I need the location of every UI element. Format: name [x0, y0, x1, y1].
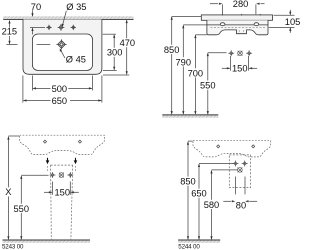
svg-text:Ø 45: Ø 45	[66, 55, 86, 65]
svg-text:Ø 35: Ø 35	[66, 2, 86, 12]
fixing hole right	[254, 23, 259, 26]
svg-text:150: 150	[232, 64, 248, 74]
dim 550 vertical	[208, 53, 227, 114]
tap hole centre line	[30, 26, 45, 28]
dashed basin outline	[193, 141, 271, 157]
svg-text:80: 80	[236, 200, 246, 210]
dim X vertical	[8, 136, 19, 239]
dim 80	[223, 200, 257, 202]
dim 500	[32, 76, 92, 91]
dim 580 vertical	[212, 170, 238, 239]
svg-text:105: 105	[285, 17, 300, 27]
floor hatch strip	[3, 240, 91, 243]
svg-text:700: 700	[188, 68, 204, 78]
fixing arrow left	[46, 158, 50, 164]
fixing hole left (plan)	[44, 140, 47, 143]
connection hole right	[242, 161, 248, 167]
dim 70	[32, 10, 34, 34]
drain crosshair (Ø45)	[56, 39, 66, 49]
fixing hole left (plan)	[217, 145, 220, 148]
apron ledge line	[207, 24, 268, 26]
dim 650 vertical	[199, 163, 234, 239]
connection hole right	[67, 172, 73, 178]
connection hole centre	[59, 173, 64, 178]
dim 790 vertical	[183, 25, 207, 114]
dim 850 vertical	[188, 141, 193, 239]
drain tab dashes	[238, 30, 240, 33]
svg-text:650: 650	[191, 189, 207, 199]
dim 550 vertical	[21, 175, 48, 239]
dim 150	[222, 56, 257, 71]
fixing bolt dashed right	[75, 166, 77, 172]
svg-text:500: 500	[52, 84, 68, 94]
leader Ø45	[60, 49, 65, 58]
connection hole centre	[238, 51, 243, 56]
svg-text:580: 580	[204, 200, 220, 210]
svg-text:790: 790	[176, 57, 192, 67]
svg-text:650: 650	[52, 96, 68, 106]
connection hole left	[50, 172, 56, 178]
connection hole left	[228, 50, 234, 56]
wall hatch strip	[3, 16, 133, 19]
hidden water line (dashed)	[211, 27, 266, 29]
fixing bolt dashed left	[47, 166, 49, 172]
connection hole centre	[238, 168, 243, 173]
tap hole right	[71, 25, 76, 30]
tap hole left	[46, 25, 51, 30]
dim 150	[44, 182, 79, 195]
siphon cover dashed box	[229, 155, 250, 188]
dim 470	[103, 20, 129, 75]
dim 105	[269, 10, 295, 33]
dim 300	[103, 34, 117, 70]
dim 215	[6, 21, 50, 45]
svg-text:550: 550	[14, 204, 30, 214]
tap hole centre (Ø35)	[58, 24, 65, 31]
svg-text:850: 850	[164, 45, 180, 55]
svg-text:150: 150	[55, 187, 71, 197]
dim 650	[23, 76, 102, 103]
svg-text:215: 215	[2, 27, 18, 37]
svg-text:470: 470	[120, 38, 136, 48]
svg-text:300: 300	[107, 48, 123, 58]
svg-text:70: 70	[31, 2, 41, 12]
dim 850 vertical	[172, 16, 202, 114]
svg-text:850: 850	[180, 177, 196, 187]
drain pipe left	[234, 177, 236, 195]
fixing hole right (plan)	[252, 145, 255, 148]
fixing arrow right	[74, 158, 78, 164]
tap deck ticks	[223, 14, 261, 16]
leader Ø35	[62, 11, 66, 26]
basin outer rim	[23, 19, 102, 74]
connection hole right	[246, 50, 252, 56]
connection hole left	[233, 161, 239, 167]
svg-text:5243 00: 5243 00	[2, 243, 24, 250]
fixing hole left	[220, 23, 225, 26]
basin inner bowl	[32, 34, 92, 70]
drain pipe right	[244, 177, 246, 195]
svg-text:280: 280	[233, 0, 249, 9]
pedestal dashed outline	[51, 165, 73, 239]
apron outline	[207, 20, 268, 35]
svg-text:5244 00: 5244 00	[178, 243, 200, 250]
svg-text:X: X	[5, 187, 11, 197]
floor hatch strip	[178, 240, 220, 243]
svg-text:550: 550	[200, 81, 216, 91]
washbasin slab	[201, 15, 272, 20]
floor hatch strip	[162, 115, 218, 118]
fixing hole right (plan)	[78, 140, 81, 143]
dim 280	[210, 4, 265, 15]
dashed basin outline	[20, 135, 105, 154]
dim 700 vertical	[195, 35, 207, 114]
